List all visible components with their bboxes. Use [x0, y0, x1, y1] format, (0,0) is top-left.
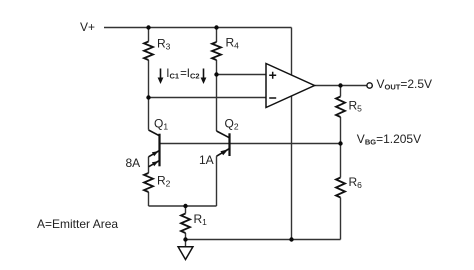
svg-text:A=Emitter Area: A=Emitter Area	[37, 217, 118, 231]
svg-text:1A: 1A	[199, 153, 214, 167]
svg-text:V+: V+	[80, 20, 95, 34]
svg-text:8A: 8A	[126, 156, 141, 170]
